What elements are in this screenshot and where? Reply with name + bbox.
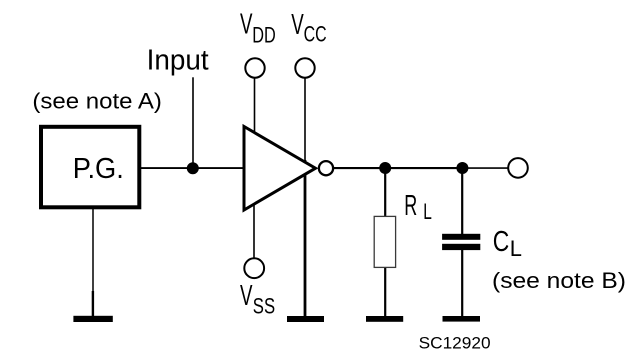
terminal VCC xyxy=(295,58,314,77)
output inverting bubble xyxy=(319,161,333,175)
wire RL drop xyxy=(384,168,386,217)
svg-text:SS: SS xyxy=(253,294,275,319)
node CL junction xyxy=(456,162,468,174)
wire VCC to ground xyxy=(304,160,307,316)
ground CL xyxy=(443,316,481,322)
svg-text:DD: DD xyxy=(252,23,276,48)
ground P.G. xyxy=(73,316,112,322)
ground VCC xyxy=(287,316,324,322)
wire output main xyxy=(326,167,462,169)
svg-text:R: R xyxy=(404,190,417,222)
svg-text:V: V xyxy=(240,280,253,312)
svg-text:SC12920: SC12920 xyxy=(419,335,491,353)
capacitor CL top plate xyxy=(442,234,480,240)
node RL junction xyxy=(379,162,391,174)
svg-text:(see note B): (see note B) xyxy=(492,268,626,293)
capacitor CL bottom plate xyxy=(442,244,480,250)
svg-text:L: L xyxy=(510,236,522,261)
svg-text:CC: CC xyxy=(304,21,327,46)
wire P.G. output to buffer input xyxy=(141,167,243,169)
svg-text:V: V xyxy=(240,9,253,41)
wire P.G. to ground thick xyxy=(92,291,94,316)
node input junction xyxy=(187,162,199,174)
terminal VSS xyxy=(244,258,264,278)
wire VDD stub xyxy=(254,78,256,134)
svg-text:(see note A): (see note A) xyxy=(32,89,162,114)
resistor RL xyxy=(374,216,395,267)
svg-text:V: V xyxy=(291,9,304,41)
svg-text:P.G.: P.G. xyxy=(73,153,124,185)
wire CL to ground xyxy=(461,249,463,316)
wire VCC upper xyxy=(304,78,306,162)
terminal VDD xyxy=(245,58,264,77)
buffer triangle U1 xyxy=(244,127,316,211)
pulse generator box P.G. xyxy=(41,127,139,208)
wire to output terminal xyxy=(462,167,509,169)
svg-text:L: L xyxy=(423,199,432,224)
svg-text:C: C xyxy=(493,226,510,258)
ground RL xyxy=(366,316,403,322)
terminal output xyxy=(508,158,528,178)
svg-text:Input: Input xyxy=(147,44,209,76)
wire CL drop xyxy=(461,168,463,235)
wire Input stub xyxy=(192,77,194,168)
wire RL to ground xyxy=(384,267,386,317)
wire VSS stub xyxy=(253,195,255,259)
wire P.G. to ground thin xyxy=(92,209,94,291)
